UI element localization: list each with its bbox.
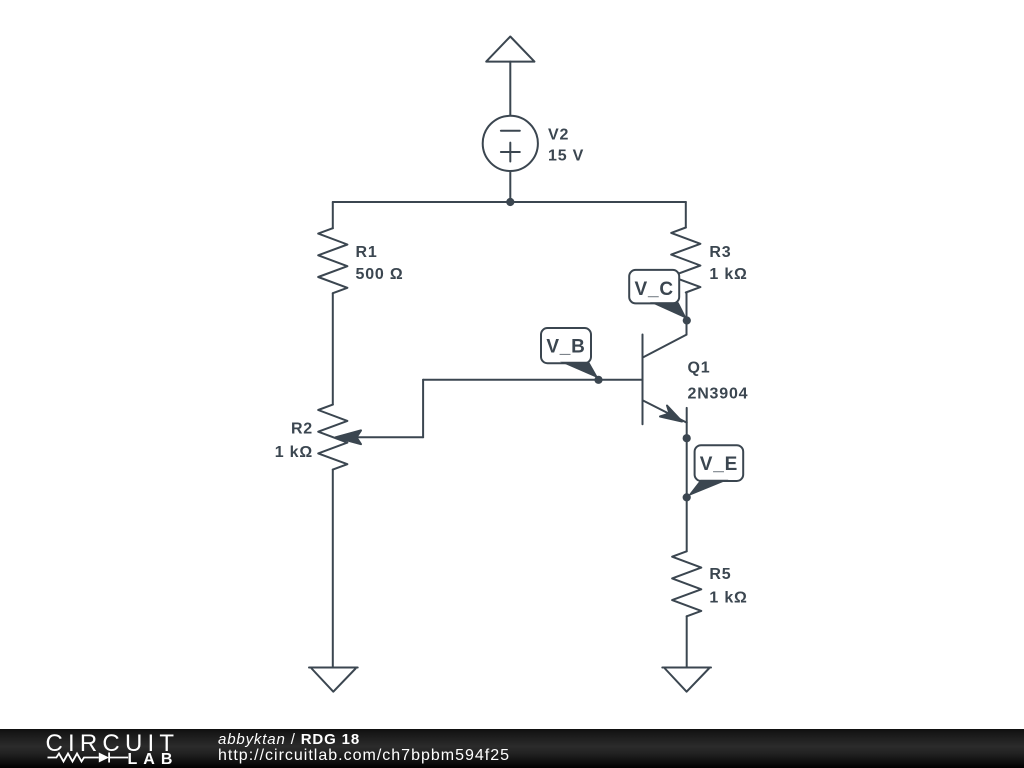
node dot V_C (collector) [683,316,691,324]
emitter wire down to R5 [686,408,688,551]
svg-text:1 kΩ: 1 kΩ [709,589,747,606]
footer url [218,747,510,765]
ground (left) [309,668,358,692]
V2 plus sign [501,143,520,162]
svg-text:15 V: 15 V [548,148,584,165]
svg-text:R5: R5 [709,566,731,583]
footer bar [0,729,1024,768]
node dot emitter [683,434,691,442]
svg-text:2N3904: 2N3904 [688,386,749,403]
resistor R1 [318,228,347,293]
V2 minus sign [501,130,520,132]
Q1 collector diagonal [643,335,687,358]
wire R3 to collector [686,293,688,335]
node V_B flag box [541,328,591,363]
svg-text:1 kΩ: 1 kΩ [709,266,747,283]
svg-text:1 kΩ: 1 kΩ [275,444,313,461]
transistor Q1 base bar [642,335,644,425]
node dot top rail junction [506,198,514,206]
CircuitLab logo [0,723,200,768]
svg-text:V_E: V_E [700,454,738,475]
footer author / title [218,731,360,748]
node V_E flag box [695,445,744,481]
svg-text:R1: R1 [356,244,378,261]
node dot V_B [594,376,602,384]
svg-text:V2: V2 [548,127,569,144]
wire R1 to R2 [332,293,334,404]
wire R2 to ground [332,470,334,668]
V_C flag tail [650,302,687,319]
wire top rail [333,201,686,203]
svg-text:V_B: V_B [546,337,585,358]
Q1 emitter arrowhead [660,406,682,422]
R2 wiper arrowhead [336,430,362,444]
svg-text:R3: R3 [709,244,731,261]
resistor R2 (potentiometer) [318,405,347,470]
voltage source V2 circle [483,116,538,171]
wire R5 to ground [686,616,688,667]
V_E flag tail [688,480,729,497]
wire base [423,379,642,381]
svg-text:V_C: V_C [635,279,674,300]
wire V2 to top rail [509,171,511,202]
V_B flag tail [560,362,599,379]
wire riser up [422,380,424,438]
svg-text:Q1: Q1 [688,360,711,377]
ground (right) [662,668,711,692]
R2 wiper wire to riser [352,436,423,438]
wire rail to R1 [332,202,334,228]
resistor R3 [671,228,700,293]
svg-text:500 Ω: 500 Ω [356,266,404,283]
node V_C flag box [629,270,679,304]
Q1 emitter diagonal [643,401,687,423]
svg-text:LAB: LAB [128,751,179,768]
resistor R5 [672,551,701,616]
wire rail to R3 [685,202,687,228]
power flag (V+ arrow) [486,37,534,62]
node dot V_E [683,493,691,501]
wire power arrow to V2 [509,62,511,116]
svg-text:R2: R2 [291,421,313,438]
